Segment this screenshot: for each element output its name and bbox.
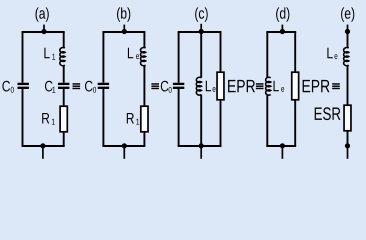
label C0 (a) <box>2 81 10 92</box>
junction dot b-bottom <box>122 143 127 148</box>
wire e-mid <box>347 65 349 105</box>
wire a-right-lower <box>63 132 65 146</box>
label (d) <box>276 7 289 21</box>
wire d-bottom <box>266 145 296 147</box>
junction dot d-top <box>280 29 285 34</box>
node E-top stub <box>347 25 349 32</box>
equivalence symbol 3 <box>256 83 264 84</box>
wire d-right-lower <box>294 100 296 146</box>
wire b-right-upper <box>143 32 145 48</box>
label R1 (a) <box>42 113 49 124</box>
wire c-top <box>178 31 222 33</box>
label C1 <box>45 81 53 92</box>
junction dot a-top <box>41 29 46 34</box>
wire e-lower <box>347 131 349 146</box>
label EPR (d) <box>303 80 330 92</box>
wire c-bottom <box>178 145 222 147</box>
resistor R1 (a) <box>60 106 67 132</box>
wire a-right-upper <box>63 32 65 48</box>
inductor Le (b) <box>141 48 146 66</box>
wire c-right-upper <box>220 32 222 72</box>
wire d-left-upper <box>266 32 268 78</box>
resistor R1 (b) <box>141 106 148 132</box>
wire e-upper <box>347 32 349 49</box>
wire a-left-upper <box>22 32 24 83</box>
junction dot c-top <box>199 29 204 34</box>
label (b) <box>117 7 130 21</box>
junction dot b-top <box>122 29 127 34</box>
capacitor C0 (c) <box>173 83 184 85</box>
label C0 (b) <box>85 81 93 92</box>
inductor Le (d) <box>266 77 271 95</box>
wire d-right-upper <box>294 32 296 72</box>
node E-bottom stub <box>347 146 349 159</box>
wire c-left-upper <box>178 32 180 83</box>
junction dot d-bottom <box>280 143 285 148</box>
wire c-left-lower <box>178 89 180 146</box>
wire a-left-lower <box>22 89 24 146</box>
equivalence symbol 1 <box>73 83 81 84</box>
resistor EPR (d) <box>292 72 299 100</box>
label C0 (c) <box>161 81 169 92</box>
junction dot c-bottom <box>199 143 204 148</box>
capacitor C0 (a) <box>18 83 29 85</box>
wire c-mid-lower <box>200 95 202 146</box>
node C-top stub <box>200 24 202 32</box>
label (e) <box>341 7 354 21</box>
label R1 (b) <box>127 113 134 124</box>
wire b-bottom <box>102 145 145 147</box>
wire d-top <box>266 31 296 33</box>
junction dot e-top <box>345 29 350 34</box>
node A-bottom stub <box>42 146 44 159</box>
node C-bottom stub <box>200 146 202 159</box>
label ESR <box>315 107 341 120</box>
resistor ESR <box>344 105 351 131</box>
label EPR (c) <box>228 80 255 92</box>
wire b-left-upper <box>102 32 104 83</box>
wire a-bottom <box>22 145 65 147</box>
capacitor C1 <box>58 83 69 85</box>
equivalence symbol 4 <box>332 83 340 84</box>
wire c-mid-upper <box>200 32 202 78</box>
wire b-left-lower <box>102 89 104 146</box>
label (c) <box>195 7 208 21</box>
wire b-right-mid <box>143 65 145 106</box>
inductor Le (c) <box>196 77 201 95</box>
label Le (b) <box>128 48 133 59</box>
junction dot e-bottom <box>345 143 350 148</box>
junction dot a-bottom <box>40 143 45 148</box>
label Le (d) <box>274 81 279 92</box>
node D-bottom stub <box>281 146 283 159</box>
wire b-right-lower <box>143 132 145 146</box>
label Le (c) <box>206 81 211 92</box>
equivalence symbol 2 <box>151 83 159 84</box>
inductor Le (e) <box>344 48 349 66</box>
label L1 <box>44 48 49 59</box>
resistor EPR (c) <box>217 72 224 100</box>
wire d-left-lower <box>266 95 268 146</box>
node B-bottom stub <box>123 146 125 159</box>
capacitor C0 (b) <box>98 83 109 85</box>
node A-top stub <box>43 25 45 32</box>
wire a-right-mid2 <box>63 89 65 106</box>
wire b-top <box>102 31 145 33</box>
label (a) <box>36 7 49 21</box>
wire a-top <box>22 31 65 33</box>
label Le (e) <box>327 48 332 59</box>
wire a-right-mid1 <box>63 65 65 83</box>
wire c-right-lower <box>220 100 222 146</box>
node B-top stub <box>123 25 125 32</box>
inductor L1 <box>60 48 65 66</box>
node D-top stub <box>281 25 283 32</box>
